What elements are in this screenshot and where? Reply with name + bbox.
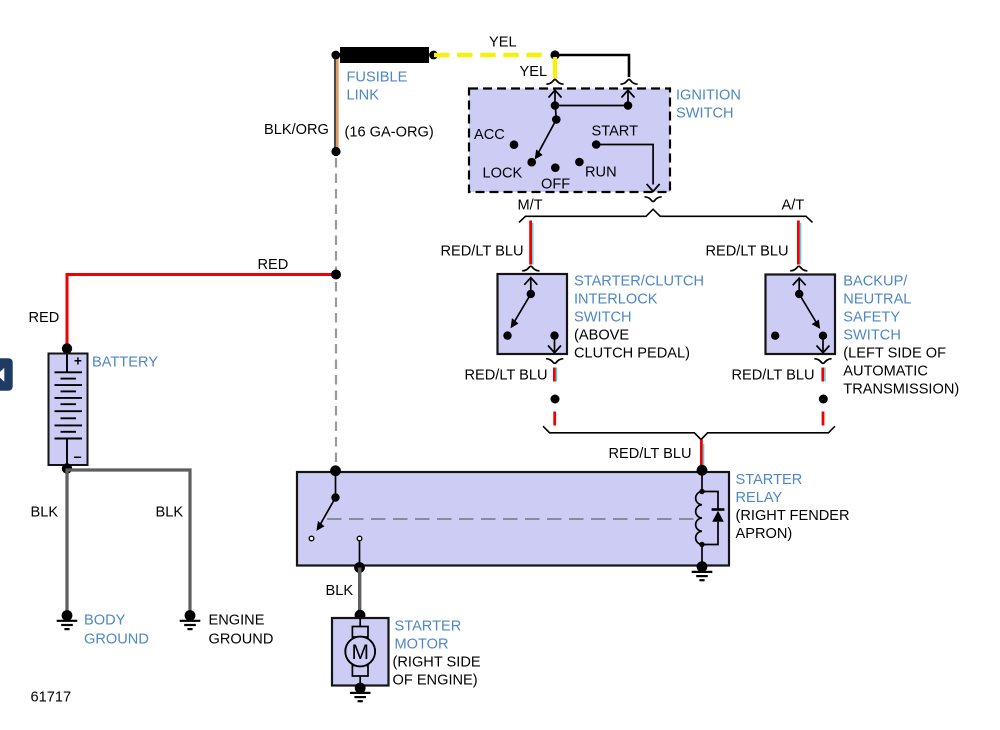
node relay switch pivot bbox=[331, 493, 339, 501]
backup output arrow down bbox=[817, 336, 830, 353]
motor brush (top) bbox=[352, 627, 368, 638]
starter/clutch interlock switch box bbox=[498, 274, 568, 354]
wire BLK battery to body ground bbox=[65, 469, 68, 612]
svg-text:LINK: LINK bbox=[347, 88, 380, 104]
connector into backup/neutral switch bbox=[790, 266, 807, 271]
ground engine bbox=[180, 616, 201, 630]
motor input lead bbox=[359, 618, 361, 627]
svg-text:SWITCH: SWITCH bbox=[676, 106, 734, 122]
node pin2 bbox=[624, 101, 633, 110]
connector out of interlock switch bbox=[546, 359, 563, 364]
wire BLK relay to starter motor bbox=[358, 568, 361, 614]
ground relay bbox=[692, 567, 713, 581]
svg-text:RED: RED bbox=[29, 310, 60, 326]
node LOCK bbox=[527, 158, 536, 167]
svg-text:BLK: BLK bbox=[31, 505, 59, 521]
relay contact (open) left bbox=[309, 536, 314, 541]
svg-text:BATTERY: BATTERY bbox=[92, 355, 158, 371]
svg-text:(LEFT SIDE OF: (LEFT SIDE OF bbox=[843, 346, 946, 362]
wire BLK battery to engine ground bbox=[67, 470, 190, 611]
svg-text:+: + bbox=[74, 354, 82, 369]
node body ground bbox=[62, 610, 73, 621]
svg-text:OF ENGINE): OF ENGINE) bbox=[393, 673, 478, 689]
svg-text:(ABOVE: (ABOVE bbox=[574, 328, 629, 344]
connector into ignition switch pin 1 bbox=[546, 80, 563, 85]
svg-text:AUTOMATIC: AUTOMATIC bbox=[843, 364, 928, 380]
svg-text:RELAY: RELAY bbox=[736, 490, 783, 506]
wire YEL dashed horizontal bbox=[434, 53, 545, 57]
svg-text:INTERLOCK: INTERLOCK bbox=[574, 292, 658, 308]
relay switch arm arrow bbox=[317, 498, 335, 531]
connector into ignition switch pin 2 bbox=[620, 80, 637, 85]
svg-text:RED/LT BLU: RED/LT BLU bbox=[609, 446, 692, 462]
wire RED from battery to junction bbox=[67, 275, 336, 348]
diode branch wires bbox=[702, 492, 718, 545]
node interlock pivot bbox=[527, 290, 535, 298]
wire RED/LT BLU dash-dot below interlock bbox=[551, 368, 560, 426]
svg-text:FUSIBLE: FUSIBLE bbox=[347, 70, 408, 86]
wire RED/LT BLU into relay bbox=[701, 440, 703, 471]
node at left end of fusible link bbox=[331, 51, 340, 60]
wire between pin1 and pin2 bbox=[555, 105, 628, 107]
wire START output with arrow down bbox=[596, 145, 659, 192]
svg-text:BLK: BLK bbox=[326, 583, 354, 599]
wire gray dashed (unshown run to starter relay) bbox=[335, 158, 337, 466]
node coil top tap bbox=[699, 489, 704, 494]
svg-text:M/T: M/T bbox=[518, 198, 543, 214]
svg-text:OFF: OFF bbox=[541, 176, 570, 192]
svg-text:LOCK: LOCK bbox=[483, 166, 523, 182]
svg-text:RED/LT BLU: RED/LT BLU bbox=[441, 244, 524, 260]
svg-text:CLUTCH PEDAL): CLUTCH PEDAL) bbox=[574, 346, 690, 362]
ground motor bbox=[350, 688, 371, 702]
ignition switch pin2 arrow up bbox=[622, 90, 635, 105]
relay contact (open) output bbox=[357, 536, 362, 541]
svg-text:(RIGHT FENDER: (RIGHT FENDER bbox=[736, 508, 850, 524]
brace merging M/T and A/T into starter relay bbox=[543, 426, 835, 439]
node relay output bbox=[354, 562, 365, 573]
svg-text:RED/LT BLU: RED/LT BLU bbox=[706, 244, 789, 260]
wire short to rotor pivot bbox=[554, 106, 557, 120]
node OFF bbox=[551, 163, 560, 172]
node battery negative terminal bbox=[62, 463, 72, 473]
backup switch input arrow up bbox=[793, 278, 806, 294]
starter relay box bbox=[297, 472, 729, 566]
fusible link (black bar) bbox=[340, 47, 429, 63]
svg-text:YEL: YEL bbox=[489, 35, 517, 51]
svg-text:TRANSMISSION): TRANSMISSION) bbox=[843, 382, 959, 398]
node battery positive terminal bbox=[62, 343, 72, 353]
svg-text:BLK: BLK bbox=[156, 505, 184, 521]
svg-text:STARTER/CLUTCH: STARTER/CLUTCH bbox=[574, 274, 704, 290]
wire black to ignition switch right input bbox=[555, 55, 629, 77]
svg-text:SAFETY: SAFETY bbox=[843, 310, 900, 326]
svg-text:ACC: ACC bbox=[474, 127, 505, 143]
svg-text:MOTOR: MOTOR bbox=[395, 637, 449, 653]
svg-text:SWITCH: SWITCH bbox=[843, 328, 901, 344]
svg-text:RUN: RUN bbox=[585, 165, 617, 181]
starter motor box bbox=[332, 618, 389, 686]
diode D1 bbox=[712, 510, 725, 522]
svg-text:RED/LT BLU: RED/LT BLU bbox=[465, 368, 548, 384]
interlock output arrow down bbox=[548, 336, 561, 353]
svg-text:RED: RED bbox=[258, 257, 289, 273]
node starter motor input bbox=[355, 610, 366, 621]
node coil bottom tap bbox=[699, 542, 704, 547]
svg-text:BLK/ORG: BLK/ORG bbox=[264, 122, 329, 138]
node START bbox=[592, 140, 601, 149]
svg-text:A/T: A/T bbox=[782, 198, 805, 214]
node rotor pivot bbox=[552, 115, 561, 124]
svg-text:GROUND: GROUND bbox=[84, 632, 149, 648]
svg-text:–: – bbox=[74, 450, 82, 466]
backup/neutral safety switch box bbox=[766, 275, 836, 355]
connector out of ignition switch bbox=[645, 197, 662, 202]
svg-text:YEL: YEL bbox=[520, 64, 548, 80]
node at right end of fusible link bbox=[429, 51, 438, 60]
node relay coil ground bbox=[697, 561, 708, 572]
backup rotor arm arrow bbox=[799, 294, 819, 328]
node backup output contact bbox=[819, 332, 827, 340]
node interlock output contact bbox=[550, 331, 558, 339]
relay coil bbox=[696, 471, 702, 567]
relay switch feed wire bbox=[335, 471, 337, 498]
ignition switch pin1 arrow up bbox=[549, 90, 562, 105]
svg-text:START: START bbox=[592, 124, 639, 140]
svg-text:SWITCH: SWITCH bbox=[574, 310, 632, 326]
interlock switch input arrow up bbox=[524, 278, 537, 294]
node RUN bbox=[575, 158, 584, 167]
ignition switch box bbox=[469, 89, 670, 193]
battery internal plates bbox=[55, 355, 83, 465]
svg-text:GROUND: GROUND bbox=[209, 632, 274, 648]
svg-text:M: M bbox=[351, 641, 369, 664]
brace splitting to M/T and A/T bbox=[519, 209, 813, 222]
svg-text:BACKUP/: BACKUP/ bbox=[843, 274, 908, 290]
wire RED/LT BLU to backup/neutral switch bbox=[798, 221, 800, 265]
node relay coil input bbox=[330, 465, 341, 476]
svg-text:NEUTRAL: NEUTRAL bbox=[843, 292, 911, 308]
wire YEL solid drop to ignition switch bbox=[553, 57, 557, 79]
svg-text:STARTER: STARTER bbox=[395, 619, 462, 635]
motor ground lead bbox=[359, 676, 361, 687]
node ACC bbox=[510, 140, 519, 149]
node junction YEL wire split bbox=[550, 50, 559, 59]
motor brush (bottom) bbox=[352, 666, 368, 677]
relay output wire to bottom edge bbox=[359, 541, 361, 567]
svg-text:61717: 61717 bbox=[31, 690, 72, 706]
svg-text:(16 GA-ORG): (16 GA-ORG) bbox=[345, 125, 434, 141]
node backup pivot bbox=[795, 290, 803, 298]
svg-text:(RIGHT SIDE: (RIGHT SIDE bbox=[393, 655, 481, 671]
motor armature circle M bbox=[345, 637, 375, 667]
relay internal dashed link bbox=[327, 518, 696, 520]
svg-text:STARTER: STARTER bbox=[736, 472, 803, 488]
node relay power input bbox=[697, 465, 708, 476]
wire RED/LT BLU dash-dot below backup bbox=[819, 368, 828, 426]
wire BLK/ORG (black/orange two-tone from fusible link down) bbox=[335, 58, 337, 149]
node backup lower-left contact bbox=[771, 332, 779, 340]
node engine ground bbox=[185, 610, 196, 621]
svg-text:IGNITION: IGNITION bbox=[676, 88, 741, 104]
wire RED/LT BLU to interlock switch bbox=[531, 221, 533, 265]
node interlock lower-left contact bbox=[503, 331, 511, 339]
svg-text:RED/LT BLU: RED/LT BLU bbox=[732, 368, 815, 384]
node junction at bottom of BLK/ORG wire bbox=[331, 147, 340, 156]
ground body bbox=[57, 616, 78, 630]
connector into interlock switch bbox=[522, 266, 539, 271]
battery box bbox=[49, 354, 88, 466]
node pin1 bbox=[551, 101, 560, 110]
node motor ground bbox=[355, 683, 366, 694]
svg-text:APRON): APRON) bbox=[736, 526, 793, 542]
svg-text:BODY: BODY bbox=[84, 613, 126, 629]
svg-text:ENGINE: ENGINE bbox=[209, 613, 265, 629]
left edge navigation tab bbox=[0, 358, 13, 391]
connector out of backup switch bbox=[814, 359, 831, 364]
interlock rotor arm arrow bbox=[511, 294, 531, 327]
node junction RED / dashed run bbox=[331, 270, 341, 280]
rotor arm arrow toward LOCK bbox=[535, 120, 556, 159]
